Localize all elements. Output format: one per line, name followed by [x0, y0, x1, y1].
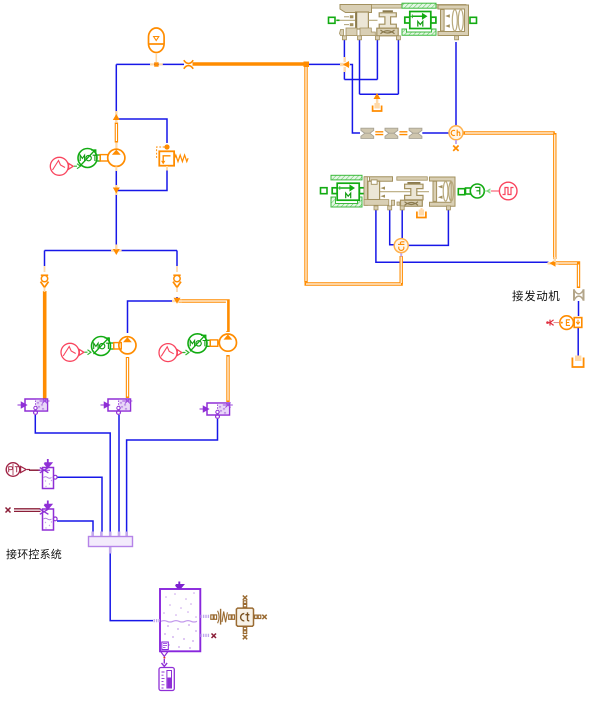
junction orange loop corner [304, 62, 310, 68]
wire valve1 port5 to Ch1 [455, 42, 457, 126]
body left cap [340, 5, 372, 13]
signal source S2 [61, 343, 84, 361]
ground hatched top [331, 175, 362, 180]
I-beam spool [407, 182, 420, 184]
engine orifice OR4 [574, 289, 584, 300]
ORANGE-LINES [45, 64, 579, 402]
top slab middle [397, 177, 428, 180]
wire to check valve 1 [44, 251, 46, 267]
wire valve2 portC to Ch2 top [401, 208, 403, 238]
shaft pump3 [210, 340, 218, 346]
mass M2 [332, 183, 364, 200]
wire accumulator trunk down [115, 64, 117, 114]
junction below CV2 [172, 298, 182, 304]
wire junction177 to pump3 [179, 301, 229, 332]
wire relief return [116, 170, 167, 191]
pump P1 [108, 149, 125, 171]
thermal convection CONV1 [211, 609, 235, 625]
wire valveC output [127, 419, 218, 532]
shaft pump2 [114, 343, 122, 349]
pins left [350, 15, 354, 26]
signal source S1 (ramp) [50, 157, 73, 175]
ORANGE-DOUBLE-CORES (white centers) [116, 67, 578, 401]
wire valve1 port2 drop [359, 40, 361, 94]
placeholder groups to be filled [41, 28, 351, 362]
wire pump1 top faded stub [115, 143, 117, 150]
valve VA (2-way purple) [18, 399, 50, 415]
axis line [336, 19, 378, 21]
svg-text:接发动机: 接发动机 [512, 289, 560, 303]
wire Ch1 to corner [464, 131, 555, 134]
wire corner down to engine junction [553, 133, 556, 259]
wire orifice row to Ch1 [422, 132, 448, 134]
junction node at 344 [340, 57, 350, 72]
wire valve1 port3 drop [376, 40, 378, 80]
node Ch1 [449, 126, 463, 151]
wire PT to compA [29, 469, 40, 471]
WIRES-LEFT [45, 64, 185, 333]
sensor PT [6, 463, 30, 477]
port green left [329, 17, 336, 23]
valve VC [200, 403, 233, 419]
wire pump outlet to relief [116, 119, 167, 143]
force input F1 [466, 184, 491, 198]
wire engine drop lower [577, 328, 579, 357]
wire to check valve 2 [176, 251, 178, 267]
wire engine drop upper [578, 301, 580, 316]
wire orange loop bottom [305, 282, 403, 285]
wire H2 link [360, 93, 399, 95]
accumulator ACC1 [149, 28, 165, 62]
wire pump suction trunk [115, 171, 117, 251]
junction pump1 bottom [113, 185, 120, 195]
bottom port stubs [342, 36, 458, 40]
shaft pump1 [100, 155, 108, 161]
component comp2 [40, 501, 57, 531]
axis [380, 191, 429, 193]
port green left [321, 188, 328, 194]
wire orifice to junction (thick orange supply) [193, 62, 305, 66]
check valve CV2 [173, 266, 181, 292]
signal arrow into MOT1 [74, 164, 80, 169]
sensor tap red [548, 320, 554, 326]
WIRES-MID [35, 415, 217, 621]
bottom port stubs [374, 206, 450, 210]
prime mover MOT2 [92, 337, 114, 356]
tank inner gauge icon [162, 642, 169, 650]
ground hatched bottom cup [331, 197, 362, 207]
wire cv2 junction to pump2 [128, 297, 178, 333]
check valve CV1 [41, 266, 49, 292]
valve VB [101, 399, 133, 415]
component compA (pressure chamber w/ throttle) [39, 459, 58, 489]
top rail [372, 5, 403, 9]
pump P2 [119, 337, 136, 354]
tank stub T2 below valve2 [417, 208, 426, 218]
wire comp2 output [57, 521, 93, 532]
right chamber [430, 177, 456, 206]
I-beam seat box [377, 28, 398, 36]
wire CV1 to valveA thick [43, 291, 47, 399]
wire valve2 portB to Ch2 left [390, 208, 394, 245]
port green right [458, 189, 465, 195]
spring chamber right [438, 5, 469, 36]
ground hatched top [402, 3, 436, 8]
wire pump2 outlet down [126, 357, 129, 398]
prime mover MOT1 [78, 149, 100, 168]
wire valve1 port4 drop [397, 40, 399, 94]
bottom blocks left [340, 30, 344, 36]
tank TK1 [154, 582, 217, 652]
junction engine line [548, 257, 559, 267]
signal source S3 [159, 344, 182, 362]
orifice throttle O1 [184, 60, 193, 69]
wire T-branch horizontal [45, 250, 178, 252]
relief valve RV1 [157, 144, 188, 170]
signal arrow into MOT2 [85, 350, 91, 355]
ground hatched bottom (mass mount) [402, 29, 436, 35]
wire pump3 outlet down [226, 355, 229, 402]
wire manifold to tank [110, 553, 153, 621]
wire Ch2 down pipe [400, 256, 403, 284]
wire accumulator line [116, 63, 184, 65]
port green right [470, 17, 477, 23]
WIRES-MIDVALVE [376, 208, 579, 357]
junction T main [111, 245, 122, 256]
junction pump1 top [113, 111, 120, 122]
rotary load E1 [546, 316, 582, 330]
wire valve1 port1 drop [343, 40, 345, 61]
wire valve2 portD to Ch2 right [409, 208, 449, 245]
pump P3 [219, 334, 236, 351]
x-mark at tank lower port [212, 634, 217, 639]
junction accumulator node [150, 62, 163, 66]
manifold MF1 [89, 532, 133, 554]
wire pump1 discharge [115, 123, 118, 143]
wire valveA output [35, 415, 110, 532]
signal arrow into MOT3 [183, 350, 189, 355]
wire engine junction to orifice [556, 263, 579, 288]
WIRES-TOPVALVE [308, 40, 456, 133]
node Ch2 [394, 239, 408, 257]
tank stub T1 below valve1 [373, 93, 382, 111]
body left section [364, 177, 393, 181]
wire comp2 input (double maroon) [6, 508, 41, 513]
level gauge LG1 below tank [159, 652, 174, 691]
wire H1 link [344, 79, 377, 81]
signal source S4 (square wave) [491, 182, 517, 200]
wire PT-comp output [57, 477, 102, 532]
svg-text:接环控系统: 接环控系统 [6, 547, 62, 561]
wire junction306 to junction344 [308, 63, 342, 65]
wire orange loop down [304, 66, 307, 282]
I-beam spool [383, 10, 393, 12]
thermal capacity Ct [236, 596, 266, 640]
prime mover MOT3 [188, 334, 210, 353]
wire valve2 portA drop to engine line [376, 208, 549, 262]
orifice row OR1-OR3 [361, 128, 422, 138]
wire valve1 port1 to orifice row [344, 65, 360, 134]
mid small blocks [391, 200, 394, 205]
spool land left [356, 12, 369, 29]
mass M1 [405, 12, 436, 29]
wire valveB output [118, 415, 120, 532]
tank T3 engine branch [572, 356, 583, 368]
